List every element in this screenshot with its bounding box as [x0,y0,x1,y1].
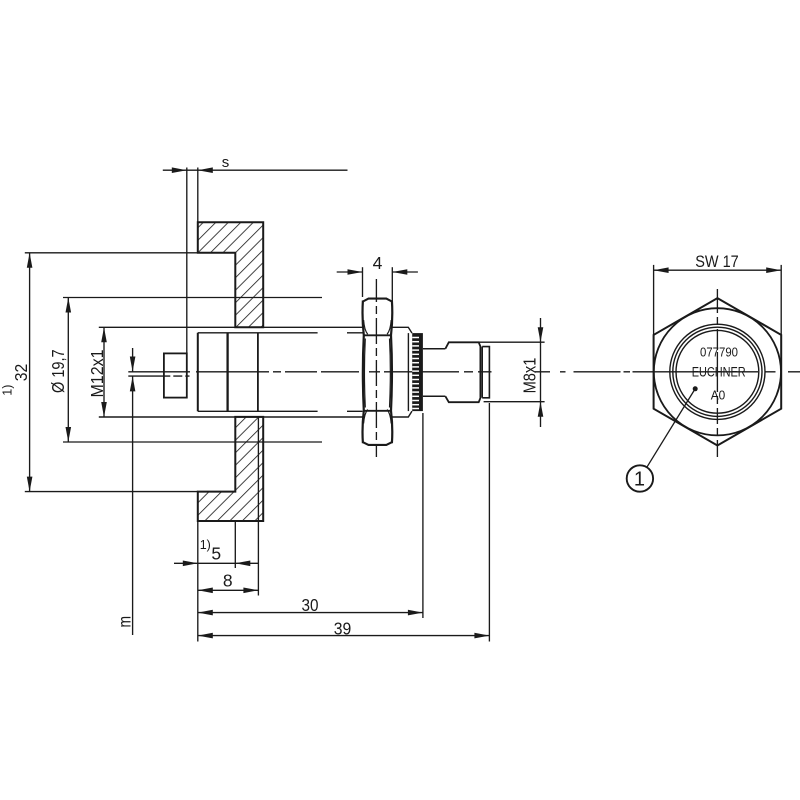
thread minor bottom line [198,410,363,412]
svg-text:M8x1: M8x1 [520,358,540,394]
thread crest after nut top [392,327,412,333]
nut chamfer arcs bottom facet [364,410,368,424]
mounting plate lower section (hatched) [198,417,263,521]
dimension 8 [198,589,259,591]
nut right silhouette arcs [391,301,392,444]
svg-text:SW 17: SW 17 [695,253,739,271]
dimension dia 19,7 [63,298,322,443]
svg-text:39: 39 [334,619,352,639]
svg-text:EUCHNER: EUCHNER [692,365,746,380]
svg-text:1): 1) [1,385,15,396]
front view vertical centerline [716,289,718,457]
nut top flat [363,299,392,302]
svg-text:Ø 19,7: Ø 19,7 [48,349,68,393]
svg-text:s: s [222,154,230,171]
dimension 5 [174,562,259,564]
svg-text:1): 1) [200,538,211,552]
dimension 39 [198,635,490,637]
callout leader and balloon 1 [693,386,698,391]
thread minor top line [198,332,363,334]
M8 connector body [445,342,480,402]
svg-text:A0: A0 [711,388,726,403]
knurl white ticks [412,338,419,409]
thread end face [407,333,409,411]
svg-text:32: 32 [11,364,31,382]
sensor cap divider [226,333,228,412]
front view hexagon [654,298,782,445]
connector end cap [482,347,489,398]
s extension line right (plate face) [197,168,199,223]
inner ring circles [670,324,765,419]
dimension M12x1 [103,327,105,417]
nut chamfer arcs middle facet [363,339,366,408]
nut left silhouette arcs [363,301,364,444]
dimension 4 (nut width) [337,267,418,302]
svg-text:m: m [114,616,134,628]
bottom extension lines [198,403,490,642]
svg-text:5: 5 [211,544,221,564]
svg-text:M12x1: M12x1 [87,350,107,398]
dimension m [132,348,134,635]
knurled ring [412,333,423,411]
dimension SW 17 [654,265,782,335]
hex nut side view [363,299,393,445]
svg-text:30: 30 [302,595,319,615]
dimension 30 [198,612,423,614]
mounting plate upper section (hatched) [198,222,263,327]
thread crest bottom line [99,416,363,418]
nut chamfer arcs top facet [364,320,368,334]
svg-text:4: 4 [373,253,383,273]
svg-text:1: 1 [634,469,645,491]
svg-text:8: 8 [223,571,233,591]
nut facet edge lower [363,410,392,412]
sensing element box [164,353,187,397]
sensor unit right edge [257,333,259,412]
connector thin shaft [423,349,446,397]
s dimension line [163,169,348,171]
nut bottom flat [363,442,392,445]
dimension 32 [25,253,198,492]
thread crest after nut bottom [392,411,412,417]
nut facet edge upper [363,334,392,336]
thread crest top line [99,326,363,328]
element axis line (offset m) [128,375,189,377]
sensor front face [197,333,199,412]
chamfer circle [654,308,781,435]
dimension M8x1 [449,318,545,427]
nut vertical centerline [375,279,377,457]
main centerline [128,371,800,373]
s extension line left (element plane) [186,168,188,354]
svg-text:077790: 077790 [700,345,738,360]
